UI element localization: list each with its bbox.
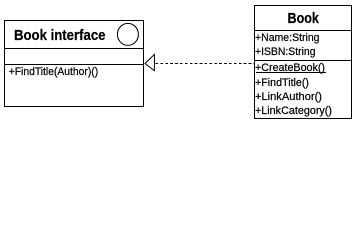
svg-text:+LinkCategory(): +LinkCategory() [255, 105, 332, 117]
dashed line [156, 63, 255, 65]
Book: underline of +CreateBook() [256, 72, 326, 74]
svg-text:+FindTitle(): +FindTitle() [255, 77, 309, 89]
Book: attribute/method divider [254, 60, 352, 62]
svg-text:+FindTitle(Author)(): +FindTitle(Author)() [9, 66, 99, 78]
class box Book interface [4, 21, 144, 107]
realization arrow from Book to Book interface [145, 54, 254, 70]
Book interface: attribute/method divider [4, 64, 144, 66]
Book: title/attribute divider [254, 30, 352, 32]
svg-text:Book: Book [288, 10, 320, 27]
class box Book [254, 6, 352, 119]
Book: outer border [255, 6, 352, 119]
svg-text:+LinkAuthor(): +LinkAuthor() [255, 91, 322, 103]
Book interface: title/attribute divider [4, 48, 144, 50]
Book interface: interface circle icon [117, 23, 138, 45]
svg-text:+ISBN:String: +ISBN:String [255, 46, 316, 58]
svg-text:Book interface: Book interface [14, 27, 106, 44]
svg-text:+Name:String: +Name:String [255, 32, 320, 44]
Book interface: outer border [5, 21, 144, 107]
hollow triangle arrowhead [145, 54, 154, 70]
